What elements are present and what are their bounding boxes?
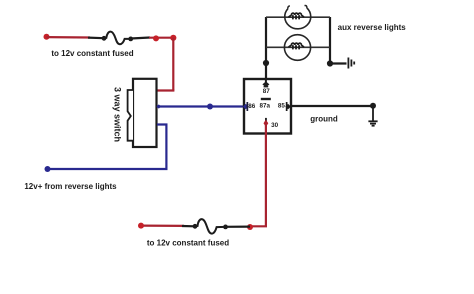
wire black lead out of fuse F2 [225, 226, 250, 228]
label: aux reverse lights [338, 23, 407, 32]
fuse F1 [102, 32, 134, 45]
wire blue from switch SW1 lower terminal down and left [48, 125, 167, 170]
svg-text:30: 30 [271, 122, 279, 129]
node: bottom 12v feed terminal [138, 223, 144, 229]
node junction right lamp bus [327, 60, 333, 66]
svg-text:aux reverse lights: aux reverse lights [338, 23, 407, 32]
svg-text:85: 85 [278, 103, 286, 110]
wire black to aux ground [330, 62, 347, 64]
wire black from lamp bus down to relay pin 87 [265, 62, 267, 79]
node: reverse-light feed terminal [45, 166, 51, 172]
svg-text:86: 86 [248, 103, 256, 110]
fuse F2 [193, 219, 228, 234]
pin label 87 [263, 88, 271, 95]
svg-text:to 12v constant fused: to 12v constant fused [51, 49, 133, 58]
svg-text:3 way switch: 3 way switch [112, 87, 122, 142]
wire black from relay pin 85 to ground node [291, 105, 374, 107]
relay pin 87 arrow [262, 78, 269, 87]
relay pin 30 terminal [264, 118, 269, 127]
node red mid junction [153, 35, 159, 41]
node red junction bottom [247, 224, 253, 230]
svg-text:12v+ from reverse lights: 12v+ from reverse lights [24, 182, 117, 191]
label: 12v+ from reverse lights [24, 182, 117, 191]
node junction left lamp bus [263, 60, 269, 66]
pin label 85 [278, 103, 286, 110]
relay contact bar [261, 98, 271, 100]
lamp L1 feed wire [266, 16, 330, 18]
ground symbol (aux lights, sideways) [348, 58, 354, 69]
svg-text:87: 87 [263, 88, 271, 95]
relay pin 85 arrow [285, 102, 291, 111]
svg-text:ground: ground [310, 114, 338, 123]
wire red from relay pin 30 down to bottom fuse [249, 121, 266, 226]
wire red from terminal to fuse F1 [47, 36, 91, 39]
lamp L2 (bottom aux lamp) [284, 35, 310, 61]
lamp bus left vertical wire [265, 17, 267, 64]
label: 3 way switch [112, 87, 122, 142]
wire black ground drop [372, 106, 374, 121]
wire red vertical down to switch [172, 38, 174, 91]
node: top-left 12v feed terminal [44, 34, 50, 40]
wire red from fuse F1 to corner [149, 37, 174, 39]
lamp bus right vertical wire [329, 17, 331, 64]
pin label 30 [271, 122, 279, 129]
wire black lead into fuse F1 [88, 36, 104, 39]
pin label 86 [248, 103, 256, 110]
switch SW1 actuator bracket [128, 90, 133, 141]
switch SW1 body [133, 79, 157, 147]
node ground junction [370, 103, 376, 109]
label: to 12v constant fused (top) [51, 49, 133, 58]
wire red bottom-left to fuse F2 [141, 225, 184, 227]
svg-text:87a: 87a [260, 103, 271, 110]
relay pin 86 arrow [243, 102, 249, 111]
wire blue from switch SW1 to relay pin 86 [156, 104, 245, 108]
wire red into switch SW1 top terminal [156, 89, 174, 91]
wire black lead into fuse F2 [182, 225, 195, 228]
node blue junction on 86 wire [207, 104, 213, 110]
pin label 87a [260, 103, 271, 110]
svg-text:to 12v constant fused: to 12v constant fused [147, 239, 229, 248]
lamp L2 feed wire [266, 46, 330, 48]
node red corner junction [170, 35, 176, 41]
lamp L1 (top aux lamp) [285, 6, 311, 29]
wire black lead out of fuse F1 [131, 38, 150, 39]
ground symbol (relay coil) [368, 121, 377, 125]
relay K1 body [244, 79, 291, 134]
label: to 12v constant fused (bottom) [147, 239, 229, 248]
label: ground [310, 114, 338, 123]
